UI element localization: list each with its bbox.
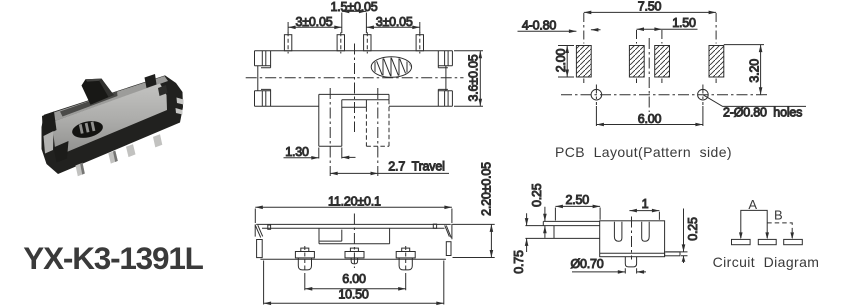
part number label	[23, 240, 203, 276]
dimension 2.00	[554, 46, 574, 78]
dimension 1.5±0.05	[331, 0, 378, 33]
dimension 3.6±0.05	[454, 51, 483, 107]
svg-text:Circuit Diagram: Circuit Diagram	[713, 254, 820, 270]
end view: body outline	[600, 221, 665, 257]
dimension 0.25 right	[666, 209, 700, 264]
photo: bottom pins	[76, 98, 184, 177]
dimension 3±0.05 left	[288, 15, 342, 33]
svg-text:1.30: 1.30	[285, 145, 309, 159]
label PCB Layout	[555, 144, 732, 160]
pcb layout: pad 2 hatched	[629, 30, 644, 83]
svg-text:3±0.05: 3±0.05	[376, 15, 413, 29]
circuit diagram: solid link A	[739, 210, 769, 239]
dimension 2.20±0.05	[453, 162, 495, 258]
dimension 10.50	[264, 261, 444, 306]
side view: body outline	[255, 224, 452, 259]
photo: detent oval hole	[71, 119, 105, 141]
dimension 3±0.05 right	[366, 15, 419, 33]
pcb layout: hole 2	[698, 85, 709, 106]
circuit diagram: dashed link B	[767, 223, 794, 240]
svg-text:A: A	[748, 197, 757, 212]
front view: slider knob dashed position	[366, 88, 389, 176]
dimension 1.50	[637, 16, 698, 31]
dimension 3.20	[724, 45, 764, 95]
photo: knob slot shadow	[60, 92, 118, 117]
svg-text:1.50: 1.50	[672, 16, 696, 30]
dimension 2.50	[555, 193, 600, 221]
front view: body outline	[255, 51, 453, 107]
front view: pin 3	[364, 32, 371, 53]
side view: slider base protrusion	[319, 228, 390, 244]
label 2-Ø0.80 holes	[703, 95, 806, 120]
front view: pin 4	[416, 32, 423, 53]
dimension 1 end view	[629, 197, 659, 220]
circuit diagram: label A	[748, 197, 757, 212]
dimension 11.20±0.1	[255, 194, 452, 223]
dimension 6.00 side	[305, 272, 406, 290]
circuit diagram: terminal 2	[758, 239, 776, 244]
circuit diagram: terminal 1	[732, 239, 751, 244]
label Circuit Diagram	[713, 254, 820, 270]
photo: right end notch	[145, 74, 168, 96]
circuit diagram: label B	[774, 208, 783, 223]
pcb layout: pad 4 hatched	[709, 13, 724, 83]
end view: center line	[631, 217, 633, 260]
svg-text:2.50: 2.50	[566, 193, 590, 207]
svg-text:10.50: 10.50	[338, 288, 369, 302]
dimension Ø0.70	[570, 257, 646, 274]
pcb layout: hole 1	[591, 85, 602, 106]
svg-text:0.75: 0.75	[512, 250, 526, 274]
svg-text:B: B	[774, 208, 783, 223]
svg-text:YX-K3-1391L: YX-K3-1391L	[23, 240, 203, 276]
front view: corner tab inner lines	[261, 51, 448, 107]
svg-text:6.00: 6.00	[342, 272, 366, 286]
pcb layout: pad 3 hatched	[655, 30, 670, 83]
photo: lever knob	[82, 79, 114, 105]
svg-text:2.7 Travel: 2.7 Travel	[388, 160, 444, 174]
end view: bottom pin	[625, 257, 636, 267]
svg-text:4-0.80: 4-0.80	[522, 19, 556, 33]
photo: metal cover front face	[52, 84, 167, 157]
end view: contact hook left	[614, 222, 622, 242]
front view: horizontal center line	[246, 77, 464, 79]
svg-text:0.25: 0.25	[530, 183, 544, 207]
front view: pin 1	[284, 32, 291, 53]
dimension 0.25 left	[530, 183, 547, 238]
dimension 7.50	[584, 0, 716, 14]
photo: metal cover top face	[46, 76, 168, 122]
pcb layout: pad 1 hatched	[576, 13, 591, 83]
svg-text:11.20±0.1: 11.20±0.1	[328, 194, 381, 208]
svg-text:1: 1	[642, 197, 649, 211]
photo: switch body silhouette	[42, 75, 184, 174]
front view: pin 2	[337, 32, 344, 53]
pcb layout: horizontal center line	[561, 94, 768, 96]
svg-text:3±0.05: 3±0.05	[296, 15, 333, 29]
dimension 6.00 pcb	[596, 106, 703, 126]
pcb layout: vertical center line	[648, 38, 650, 112]
svg-text:7.50: 7.50	[638, 0, 662, 14]
front view: vertical center line	[354, 44, 356, 133]
side view: pin 1	[295, 246, 314, 272]
dimension 1.30	[284, 145, 356, 159]
front view: slider housing protrusion	[319, 94, 389, 107]
side view: pin 2	[345, 248, 364, 264]
svg-text:3.6±0.05: 3.6±0.05	[467, 54, 481, 101]
end view: lever blade	[525, 221, 599, 238]
svg-text:3.20: 3.20	[748, 59, 762, 83]
dimension 0.75 left	[512, 213, 528, 274]
dimension 2.7 Travel	[330, 160, 449, 176]
front view: slider knob solid position	[319, 88, 342, 176]
end view: right solder tab	[665, 252, 680, 256]
side view: vertical center line	[353, 214, 355, 269]
svg-text:2-Ø0.80 holes: 2-Ø0.80 holes	[723, 105, 802, 119]
front view: hatched detent oval	[371, 56, 413, 78]
svg-text:Ø0.70: Ø0.70	[570, 257, 603, 271]
svg-text:PCB Layout(Pattern side): PCB Layout(Pattern side)	[555, 144, 732, 160]
circuit diagram: terminal 3	[784, 239, 803, 244]
side view: pin 3	[396, 246, 415, 272]
svg-text:0.25: 0.25	[686, 217, 700, 241]
photo: left end cap	[42, 112, 69, 163]
svg-text:2.20±0.05: 2.20±0.05	[479, 162, 493, 216]
dimension 4-0.80	[518, 19, 601, 34]
end view: contact hook right	[642, 222, 650, 242]
